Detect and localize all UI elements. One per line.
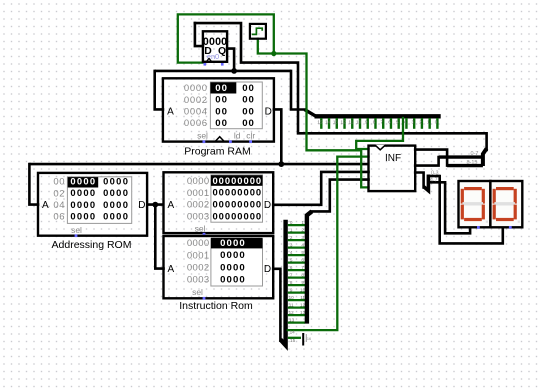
svg-text:13: 13 <box>289 318 295 323</box>
svg-text:11: 11 <box>289 303 294 308</box>
svg-text:2: 2 <box>301 228 304 233</box>
junction ROM A net <box>152 202 158 208</box>
svg-text:0: 0 <box>290 220 293 225</box>
wire ladder rung bit 13 <box>288 321 305 323</box>
wire Program RAM D output <box>274 109 281 164</box>
wire splitter leg 0-7 <box>439 155 483 158</box>
svg-text:0002: 0002 <box>184 95 208 106</box>
wire ladder rung bit 0 <box>288 224 305 226</box>
svg-text:0000: 0000 <box>70 187 96 198</box>
svg-text:00: 00 <box>53 177 65 188</box>
wire register-D to display splitter bus <box>195 23 487 150</box>
wire clock output <box>258 39 274 54</box>
svg-text:D: D <box>138 200 145 211</box>
terminator mark <box>305 334 307 342</box>
svg-text:0006: 0006 <box>184 118 208 129</box>
svg-text:14: 14 <box>325 119 331 124</box>
svg-text:0001: 0001 <box>187 250 210 261</box>
wire INF out1 to leg 8-15 <box>415 150 447 166</box>
wire to Instruction Rom A input <box>155 205 163 269</box>
wire leg 4-7 <box>428 181 445 184</box>
svg-text:7: 7 <box>290 273 293 278</box>
svg-text:INF: INF <box>385 153 401 164</box>
svg-text:sel: sel <box>192 287 203 297</box>
svg-text:00: 00 <box>215 83 228 94</box>
splitter leg bit 3 <box>413 118 415 129</box>
svg-text:5: 5 <box>396 119 399 124</box>
wire Addressing ROM A input <box>29 164 38 205</box>
junction clock net <box>271 51 276 56</box>
svg-text:0000: 0000 <box>70 211 96 222</box>
register R1 <box>203 31 227 62</box>
svg-text:3: 3 <box>290 243 293 248</box>
svg-text:D: D <box>264 264 271 275</box>
svg-text:15: 15 <box>317 119 323 124</box>
svg-text:06: 06 <box>53 212 65 223</box>
wire Program RAM A input <box>155 71 163 110</box>
svg-text:9: 9 <box>290 288 293 293</box>
svg-text:0000: 0000 <box>220 275 246 286</box>
svg-text:0000: 0000 <box>70 199 96 210</box>
svg-text:0000: 0000 <box>70 176 96 187</box>
svg-text:00: 00 <box>242 95 254 106</box>
wire INF out2 to leg 0-7 <box>415 157 438 166</box>
splitter leg bit 15 <box>320 118 322 129</box>
splitter leg bit 8 <box>374 118 376 129</box>
svg-text:00000000: 00000000 <box>212 211 262 222</box>
svg-text:8: 8 <box>373 119 376 124</box>
svg-text:12: 12 <box>289 310 295 315</box>
splitter ladder left 16-bit <box>280 220 285 346</box>
svg-text:0001: 0001 <box>187 188 210 199</box>
svg-text:00000000: 00000000 <box>212 199 262 210</box>
svg-text:9: 9 <box>365 119 368 124</box>
splitter leg bit 11 <box>351 118 353 129</box>
wire Q bus to splitter input <box>291 71 305 110</box>
svg-text:0: 0 <box>435 119 438 124</box>
svg-text:15: 15 <box>290 338 296 343</box>
svg-text:sel: sel <box>71 225 82 235</box>
svg-text:D: D <box>264 200 271 211</box>
svg-text:12: 12 <box>341 119 347 124</box>
svg-text:0004: 0004 <box>184 107 208 118</box>
wire ladder leg 14 to INF pin2 <box>288 157 369 331</box>
svg-text:0-3: 0-3 <box>431 170 439 176</box>
splitter leg bit 4 <box>405 118 407 129</box>
wire address net horizontal (INF pin3) <box>29 163 368 166</box>
wire ladder rung bit 6 <box>288 269 305 271</box>
svg-text:6: 6 <box>301 258 304 263</box>
svg-text:11: 11 <box>300 295 305 300</box>
svg-text:6: 6 <box>290 265 293 270</box>
Program RAM U1 <box>163 78 274 141</box>
splitter instruction bus 16-bit <box>305 110 317 117</box>
splitter leg bit 7 <box>382 118 384 129</box>
junction Q bus <box>231 68 237 74</box>
splitter leg bit 1 <box>428 118 430 129</box>
wire Q bus horizontal <box>155 70 291 73</box>
svg-text:6: 6 <box>388 119 391 124</box>
wire ladder rung bit 11 <box>288 306 305 308</box>
splitter spine horizontal <box>315 114 441 118</box>
svg-text:00: 00 <box>215 95 228 106</box>
splitter leg bit 13 <box>336 118 338 129</box>
svg-text:sel: sel <box>195 223 206 233</box>
wire ladder rung bit 9 <box>288 291 305 293</box>
splitter display bus 0-7/8-15 <box>483 149 487 167</box>
svg-text:4-7: 4-7 <box>430 177 438 183</box>
svg-text:1: 1 <box>301 220 304 225</box>
splitter leg bit 6 <box>390 118 392 129</box>
svg-text:00: 00 <box>215 118 228 129</box>
wire ladder rung bit 3 <box>288 246 305 248</box>
svg-text:1: 1 <box>427 119 430 124</box>
wire high digit to left display <box>445 182 470 233</box>
svg-text:0000: 0000 <box>184 83 208 94</box>
microcode ROM U2 <box>164 172 274 233</box>
svg-text:14: 14 <box>290 330 296 335</box>
svg-text:00: 00 <box>242 106 254 117</box>
svg-text:10: 10 <box>356 119 362 124</box>
svg-text:0000: 0000 <box>220 250 246 261</box>
svg-text:0002: 0002 <box>187 263 210 274</box>
splitter leg bit 12 <box>343 118 345 129</box>
svg-text:00000000: 00000000 <box>212 187 262 198</box>
svg-text:0000: 0000 <box>187 176 210 187</box>
svg-text:A: A <box>167 107 174 118</box>
wire ladder rung bit 7 <box>288 276 305 278</box>
svg-text:0000: 0000 <box>103 187 129 198</box>
wire Instruction Rom D output <box>273 269 280 341</box>
junction address net <box>278 161 284 167</box>
splitter ladder right 14-bit <box>307 211 312 323</box>
splitter leg bit 10 <box>359 118 361 129</box>
svg-text:0000: 0000 <box>220 262 246 273</box>
svg-text:0-7: 0-7 <box>471 151 479 157</box>
svg-text:00: 00 <box>242 118 254 129</box>
splitter leg bit 9 <box>367 118 369 129</box>
svg-text:4: 4 <box>290 250 293 255</box>
wire ladder rung bit 1 <box>288 231 305 233</box>
svg-text:7: 7 <box>301 265 304 270</box>
svg-text:02: 02 <box>53 188 65 199</box>
terminator bar <box>302 333 304 346</box>
svg-text:04: 04 <box>53 200 65 211</box>
svg-text:4: 4 <box>301 243 304 248</box>
svg-text:Addressing ROM: Addressing ROM <box>52 239 132 251</box>
wire Addressing ROM D to microcode ROM A <box>147 203 163 206</box>
svg-text:ld: ld <box>234 131 241 141</box>
wire ladder leg 15 <box>288 337 301 339</box>
svg-text:Program RAM: Program RAM <box>184 146 251 158</box>
splitter leg bit 5 <box>398 118 400 129</box>
splitter leg bit 14 <box>328 118 330 129</box>
svg-text:0000: 0000 <box>103 176 129 187</box>
svg-text:00: 00 <box>215 106 228 117</box>
wire ladder rung bit 4 <box>288 254 305 256</box>
wire ladder rung bit 2 <box>288 239 305 241</box>
svg-text:0000: 0000 <box>187 238 210 249</box>
svg-text:8: 8 <box>290 280 293 285</box>
svg-text:8-15: 8-15 <box>466 160 477 166</box>
svg-text:11: 11 <box>348 119 353 124</box>
svg-text:Instruction Rom: Instruction Rom <box>179 300 253 312</box>
splitter display digits 0-3/4-7 <box>424 175 429 191</box>
svg-text:sel: sel <box>197 131 208 141</box>
svg-text:16: 16 <box>307 337 311 341</box>
svg-text:0003: 0003 <box>187 212 210 223</box>
svg-text:10: 10 <box>289 295 295 300</box>
svg-text:00: 00 <box>242 83 254 94</box>
wire ladder rung bit 10 <box>288 299 305 301</box>
7-segment display DS1 <box>459 181 491 227</box>
wire clock to INF clk pin <box>274 54 369 188</box>
clock CLK1 <box>250 24 266 39</box>
svg-text:2: 2 <box>290 235 293 240</box>
svg-text:3: 3 <box>301 235 304 240</box>
svg-text:5: 5 <box>290 258 293 263</box>
wire ladder rung bit 12 <box>288 314 305 316</box>
splitter leg bit 0 <box>436 118 438 129</box>
wire register D input <box>195 23 203 46</box>
svg-text:0000: 0000 <box>220 238 246 249</box>
svg-text:0000: 0000 <box>103 199 129 210</box>
wire splitter leg 8-15 <box>447 164 483 167</box>
svg-text:9: 9 <box>301 280 304 285</box>
svg-text:3: 3 <box>411 119 414 124</box>
svg-text:0002: 0002 <box>187 200 210 211</box>
splitter leg bit 2 <box>421 118 423 129</box>
svg-text:00000000: 00000000 <box>212 175 262 186</box>
svg-text:A: A <box>42 200 49 211</box>
wire splitter leg to INF pin1 <box>356 118 403 149</box>
wire ladder right spine to INF pin5 <box>312 180 369 212</box>
wire ladder rung bit 8 <box>288 284 305 286</box>
wire ladder rung bit 5 <box>288 261 305 263</box>
wire leg 0-3 <box>428 175 439 178</box>
svg-text:1: 1 <box>290 228 293 233</box>
Addressing ROM U4 <box>38 173 147 236</box>
subcircuit INF U5 <box>369 146 416 192</box>
wire INF out3 <box>415 173 423 188</box>
svg-text:A: A <box>167 264 174 275</box>
svg-text:5: 5 <box>301 250 304 255</box>
Instruction Rom U3 <box>164 236 274 298</box>
svg-text:2: 2 <box>419 119 422 124</box>
svg-text:7: 7 <box>381 119 384 124</box>
svg-text:D: D <box>265 107 272 118</box>
svg-text:0000: 0000 <box>103 211 129 222</box>
svg-text:8: 8 <box>301 273 304 278</box>
svg-text:0003: 0003 <box>187 275 210 286</box>
wire microcode ROM D to INF pin4 <box>273 172 368 205</box>
wire low digit to right display <box>440 176 503 243</box>
wire register Q output <box>227 49 234 71</box>
svg-text:4: 4 <box>404 119 407 124</box>
wire clock to register clk <box>178 14 274 62</box>
svg-text:clr: clr <box>246 131 255 141</box>
svg-text:13: 13 <box>333 119 339 124</box>
svg-text:A: A <box>167 200 174 211</box>
7-segment display DS2 <box>490 181 522 227</box>
